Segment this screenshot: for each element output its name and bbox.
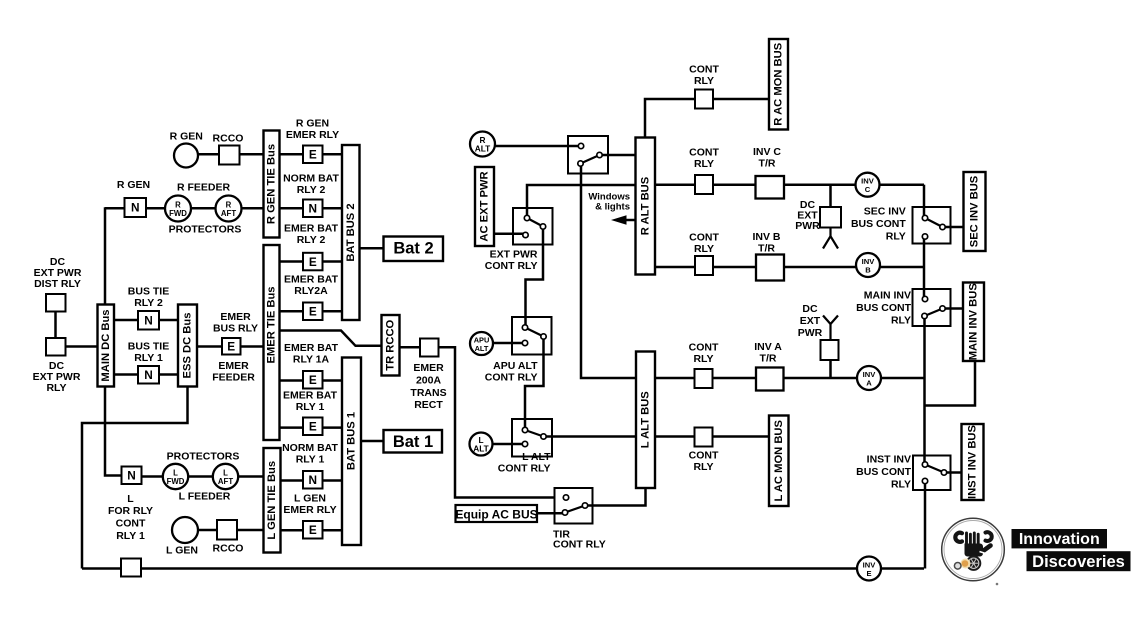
svg-text:RCCO: RCCO [213,543,244,555]
svg-text:CONT RLY: CONT RLY [553,539,606,551]
svg-text:RLY 2: RLY 2 [134,297,163,309]
svg-text:INST INV BUS: INST INV BUS [967,424,979,499]
svg-text:E: E [309,373,317,387]
svg-text:RLY 2: RLY 2 [297,184,326,196]
svg-text:EXT PWR: EXT PWR [490,249,538,261]
svg-text:L GEN: L GEN [294,493,326,505]
svg-text:ALT: ALT [473,443,489,453]
svg-text:CONT RLY: CONT RLY [498,463,551,475]
svg-text:EMER TIE Bus: EMER TIE Bus [266,286,278,363]
svg-text:BUS TIE: BUS TIE [128,286,169,298]
svg-text:DIST RLY: DIST RLY [34,278,81,290]
svg-text:T/R: T/R [760,353,777,365]
svg-text:E: E [309,419,317,433]
svg-text:T/R: T/R [759,158,776,170]
svg-text:RCCO: RCCO [213,132,244,144]
svg-text:E: E [309,304,317,318]
svg-text:BUS RLY: BUS RLY [213,323,258,335]
svg-text:N: N [308,473,317,487]
svg-text:N: N [144,368,153,382]
svg-text:CONT RLY: CONT RLY [485,260,538,272]
svg-text:N: N [131,201,140,215]
svg-text:PROTECTORS: PROTECTORS [169,224,242,236]
svg-text:Bat 2: Bat 2 [393,240,433,258]
svg-text:CONT RLY: CONT RLY [485,372,538,384]
svg-text:PWR: PWR [795,220,820,232]
svg-text:E: E [866,569,871,578]
svg-text:CONT: CONT [689,64,719,76]
svg-text:INV B: INV B [752,231,780,243]
svg-text:L GEN TIE Bus: L GEN TIE Bus [266,461,278,540]
svg-text:NORM BAT: NORM BAT [282,442,338,454]
svg-text:MAIN INV: MAIN INV [864,290,911,302]
svg-text:FOR RLY: FOR RLY [108,505,153,517]
svg-text:E: E [227,340,235,354]
svg-text:INV C: INV C [753,146,781,158]
svg-text:RLY 1: RLY 1 [296,401,325,413]
svg-text:SEC INV: SEC INV [864,206,906,218]
svg-text:AFT: AFT [218,477,233,486]
svg-text:L ALT: L ALT [522,451,551,463]
svg-text:TRANS: TRANS [410,387,446,399]
svg-text:AC EXT PWR: AC EXT PWR [479,171,491,241]
svg-text:ESS DC Bus: ESS DC Bus [182,313,194,379]
svg-text:PWR: PWR [798,327,823,339]
svg-text:RLY: RLY [694,75,714,87]
svg-text:FEEDER: FEEDER [212,372,255,384]
svg-text:T/R: T/R [758,243,775,255]
svg-text:B: B [865,265,871,274]
svg-text:CONT: CONT [116,518,146,530]
svg-text:BAT BUS 2: BAT BUS 2 [345,203,357,261]
svg-text:CONT: CONT [689,342,719,354]
svg-text:L AC MON BUS: L AC MON BUS [773,420,785,502]
svg-text:L GEN: L GEN [166,545,198,557]
svg-text:BUS CONT: BUS CONT [856,466,911,478]
svg-text:BAT BUS 1: BAT BUS 1 [346,412,358,470]
svg-text:RLY: RLY [694,243,714,255]
svg-text:RLY 1: RLY 1 [116,530,145,542]
svg-text:DC: DC [802,303,818,315]
svg-text:RECT: RECT [414,399,443,411]
svg-text:Innovation: Innovation [1019,531,1100,548]
svg-text:Equip AC BUS: Equip AC BUS [455,507,537,521]
svg-text:ALT: ALT [475,344,489,353]
svg-text:Discoveries: Discoveries [1032,553,1125,571]
svg-text:ALT: ALT [475,143,491,153]
svg-text:CONT: CONT [689,450,719,462]
svg-text:L FEEDER: L FEEDER [179,491,231,503]
svg-text:L ALT BUS: L ALT BUS [640,391,652,449]
svg-text:INV A: INV A [754,341,782,353]
svg-text:RLY: RLY [694,158,714,170]
svg-text:E: E [309,523,317,537]
svg-text:BUS CONT: BUS CONT [856,302,911,314]
svg-text:BUS CONT: BUS CONT [851,218,906,230]
svg-text:RLY: RLY [693,461,713,473]
svg-text:Bat 1: Bat 1 [393,433,433,451]
svg-text:E: E [309,147,317,161]
svg-text:APU ALT: APU ALT [493,360,538,372]
svg-text:R GEN: R GEN [296,118,329,130]
svg-text:200A: 200A [416,375,442,387]
svg-text:EMER BAT: EMER BAT [284,223,339,235]
svg-text:NORM BAT: NORM BAT [283,173,339,185]
svg-text:FWD: FWD [169,209,187,218]
svg-text:CONT: CONT [689,147,719,159]
svg-text:EMER: EMER [220,311,251,323]
svg-text:& lights: & lights [595,202,630,213]
svg-text:EMER: EMER [413,362,444,374]
svg-text:RLY: RLY [46,382,66,394]
svg-text:SEC INV BUS: SEC INV BUS [969,175,981,247]
svg-text:R GEN: R GEN [170,131,203,143]
svg-text:INST INV: INST INV [867,454,911,466]
svg-text:BUS TIE: BUS TIE [128,341,169,353]
svg-text:RLY2A: RLY2A [294,285,328,297]
svg-text:RLY 2: RLY 2 [297,234,326,246]
svg-text:RLY: RLY [891,479,911,491]
svg-text:N: N [308,201,317,215]
svg-text:EMER RLY: EMER RLY [286,129,339,141]
svg-text:RLY 1A: RLY 1A [293,354,330,366]
svg-text:MAIN INV BUS: MAIN INV BUS [968,283,980,361]
svg-text:RLY: RLY [886,231,906,243]
svg-text:AFT: AFT [221,209,236,218]
svg-text:R GEN TIE Bus: R GEN TIE Bus [266,144,278,224]
svg-text:FWD: FWD [167,477,185,486]
svg-text:R GEN: R GEN [117,179,150,191]
svg-text:TR RCCO: TR RCCO [385,319,397,370]
svg-text:CONT: CONT [689,232,719,244]
svg-text:R FEEDER: R FEEDER [177,182,231,194]
svg-text:EMER BAT: EMER BAT [283,390,338,402]
svg-text:RLY: RLY [891,315,911,327]
svg-text:R ALT BUS: R ALT BUS [639,176,651,235]
svg-text:L: L [127,493,134,505]
svg-text:EMER BAT: EMER BAT [284,342,339,354]
svg-text:E: E [309,255,317,269]
svg-text:EMER: EMER [218,360,249,372]
svg-text:RLY 1: RLY 1 [296,454,325,466]
svg-text:A: A [866,378,872,387]
svg-text:R AC MON BUS: R AC MON BUS [773,42,785,125]
svg-text:MAIN DC Bus: MAIN DC Bus [100,309,112,381]
svg-text:RLY: RLY [693,353,713,365]
svg-text:N: N [144,313,153,327]
svg-text:C: C [865,185,871,194]
svg-text:EMER RLY: EMER RLY [283,504,336,516]
svg-text:RLY 1: RLY 1 [134,352,163,364]
svg-text:PROTECTORS: PROTECTORS [167,451,240,463]
svg-text:N: N [127,468,136,482]
svg-text:EMER BAT: EMER BAT [284,274,339,286]
svg-text:EXT: EXT [800,315,821,327]
